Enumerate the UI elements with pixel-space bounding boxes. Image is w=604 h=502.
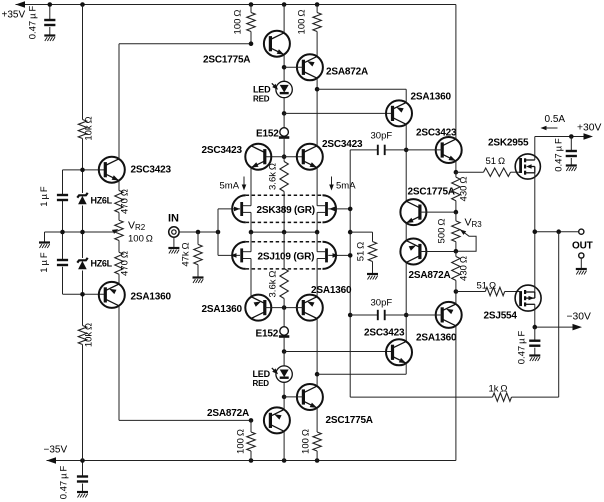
resistor 3.6k ohm top bbox=[283, 157, 285, 162]
wire lower base row bbox=[63, 293, 106, 295]
wire driver top emitter to gate node bbox=[455, 161, 457, 172]
svg-text:51 Ω: 51 Ω bbox=[477, 281, 497, 292]
node bottom node junction bbox=[249, 418, 254, 423]
wire VR2 to 470 bottom bbox=[118, 241, 120, 253]
wire 2SC1775A top emitter to LED bbox=[283, 55, 285, 82]
wire 2SC1775A bottom emitter to 100 ohm bbox=[316, 408, 318, 432]
wire 2SA872A top collector bbox=[316, 78, 318, 146]
node lower base row bbox=[80, 292, 85, 297]
svg-text:10k Ω: 10k Ω bbox=[84, 323, 95, 347]
transistor Q 2SA872A top bbox=[297, 54, 323, 80]
svg-text:HZ6L: HZ6L bbox=[91, 196, 113, 206]
node B junction bottom bbox=[282, 349, 287, 354]
LED RED top bbox=[276, 81, 292, 97]
arrow +30V rail right end bbox=[584, 133, 594, 139]
svg-text:HZ6L: HZ6L bbox=[91, 259, 113, 269]
wire top-right tap to VAS emitter bbox=[317, 88, 406, 90]
transistor Q 2SA1360 driver bottom bbox=[436, 302, 462, 328]
node VR3 top junction bbox=[454, 210, 459, 215]
gate arrow 2SK389 left bbox=[218, 208, 240, 210]
node bottom rail junctions bbox=[80, 458, 85, 463]
svg-text:100 Ω: 100 Ω bbox=[233, 10, 244, 35]
wire 2SJ554 source to output bbox=[534, 232, 536, 292]
svg-text:2SA1360: 2SA1360 bbox=[416, 333, 457, 344]
svg-text:2SC1775A: 2SC1775A bbox=[203, 55, 250, 66]
svg-text:51 Ω: 51 Ω bbox=[486, 156, 506, 167]
current diode E152 top bbox=[283, 113, 285, 127]
wire cascode left emitter to FET drain bbox=[250, 168, 252, 206]
svg-text:2SA1360: 2SA1360 bbox=[311, 285, 352, 296]
svg-text:10k Ω: 10k Ω bbox=[84, 116, 95, 140]
ground top-left cap bbox=[44, 36, 55, 42]
svg-text:2SC1775A: 2SC1775A bbox=[408, 187, 455, 198]
resistor 470 ohm top bbox=[115, 191, 123, 213]
wire VAS top collector bbox=[405, 124, 407, 201]
resistor 470 ohm bottom bbox=[115, 252, 123, 274]
capacitor 0.47uF top-left bbox=[49, 5, 51, 20]
wire capacitor column bbox=[62, 170, 64, 194]
svg-text:0.47 µ F: 0.47 µ F bbox=[28, 6, 39, 40]
wire 470 to lower-left emitter bbox=[118, 274, 120, 284]
transistor Q 2SC3423 upper-left bbox=[99, 157, 125, 183]
node input junctions bbox=[196, 230, 201, 235]
node -30V junction bbox=[533, 325, 538, 330]
connector OUT terminal bbox=[579, 229, 584, 234]
svg-text:LED: LED bbox=[253, 369, 271, 379]
svg-text:1k Ω: 1k Ω bbox=[489, 384, 508, 395]
svg-text:RED: RED bbox=[253, 95, 270, 104]
gate arrow 2SJ109 left bbox=[218, 254, 240, 256]
wire -30V rail bbox=[535, 326, 579, 328]
svg-text:+30V: +30V bbox=[577, 123, 601, 134]
svg-text:R2: R2 bbox=[135, 223, 146, 232]
node top rail junctions bbox=[48, 2, 53, 7]
transistor Q 2SA1360 cascode-bottom left bbox=[245, 295, 271, 321]
resistor 10k ohm bottom bbox=[78, 326, 86, 345]
svg-text:−35V: −35V bbox=[44, 445, 68, 456]
wire mid-right emitters joined bbox=[405, 223, 407, 241]
FET 2SK389 left half bbox=[232, 195, 246, 222]
zener diode HZ6L bottom bbox=[77, 258, 87, 263]
transistor Q 2SC1775A bottom bbox=[297, 384, 323, 410]
svg-text:2SC3423: 2SC3423 bbox=[202, 145, 243, 156]
wire LED to node A bbox=[283, 98, 285, 114]
wire VAS bottom collector bbox=[405, 341, 407, 343]
wire 2SC1775A bottom base bbox=[284, 396, 303, 398]
capacitor 0.47uF bottom-left bbox=[82, 461, 84, 476]
wire 2SJ554 drain to -30V rail bbox=[534, 304, 536, 327]
svg-text:IN: IN bbox=[168, 213, 179, 225]
node base tap 2SC1775A bottom bbox=[282, 395, 287, 400]
node VAS top collector junction bbox=[404, 148, 409, 153]
wire 2SA872A bottom collector to rail bbox=[283, 431, 285, 460]
zener diode HZ6L top bbox=[77, 193, 87, 198]
svg-text:+35V: +35V bbox=[2, 10, 26, 21]
FET 2SK389 right half bbox=[323, 195, 337, 222]
dual FET 2SK389 dashed package bbox=[246, 194, 323, 196]
capacitor 1uF top bbox=[57, 195, 68, 200]
svg-text:470 Ω: 470 Ω bbox=[120, 251, 131, 276]
MOSFET 2SK2955 bbox=[515, 154, 540, 179]
transistor Q 2SC3423 driver top bbox=[436, 137, 462, 163]
wire cascode base row top bbox=[265, 156, 304, 158]
svg-text:1 µ F: 1 µ F bbox=[39, 252, 50, 273]
svg-text:2SC3423: 2SC3423 bbox=[131, 165, 172, 176]
resistor 100 ohm bottom-right of center bbox=[313, 432, 321, 451]
svg-text:100 Ω: 100 Ω bbox=[297, 10, 308, 35]
transistor Q 2SA872A mid-right bbox=[400, 239, 426, 265]
svg-text:3.6k Ω: 3.6k Ω bbox=[268, 163, 279, 190]
node upper base row bbox=[80, 168, 85, 173]
wire +30V rail bbox=[535, 136, 590, 138]
resistor 1k ohm feedback bbox=[493, 393, 512, 401]
svg-text:100 Ω: 100 Ω bbox=[301, 429, 312, 454]
transistor Q 2SC3423 VAS bottom bbox=[386, 339, 412, 365]
wire -35V bottom rail bbox=[47, 460, 456, 462]
svg-text:0.47 µ F: 0.47 µ F bbox=[59, 466, 70, 500]
resistor 430 ohm bottom bbox=[455, 251, 457, 256]
svg-text:1 µ F: 1 µ F bbox=[39, 186, 50, 207]
resistor 10k ohm top bbox=[78, 120, 86, 139]
svg-text:0.5A: 0.5A bbox=[545, 114, 566, 125]
node source row junctions bbox=[249, 230, 254, 235]
transistor Q 2SC1775A top bbox=[264, 31, 290, 57]
wire 2SK2955 drain to +30V rail bbox=[534, 137, 536, 161]
wire lower-left collector to bottom node bbox=[118, 306, 120, 421]
resistor 51 ohm gate top bbox=[456, 171, 484, 173]
wire 2SA872A mid-right base bbox=[420, 251, 456, 253]
svg-text:30pF: 30pF bbox=[371, 131, 393, 142]
wire cascode base row bottom bbox=[265, 307, 304, 309]
wire upper base row bbox=[63, 169, 106, 171]
wire 2SK2955 source to output bbox=[534, 173, 536, 232]
gate arrow 2SJ109 right bbox=[328, 254, 350, 256]
node gate node bottom bbox=[454, 289, 459, 294]
node +30V cap junction bbox=[569, 134, 574, 139]
wire driver top base bbox=[406, 149, 442, 151]
wire feedback right vertical bbox=[558, 232, 560, 397]
wire driver bottom emitter to gate node bbox=[455, 292, 457, 305]
node gate column right junctions bbox=[348, 207, 353, 212]
svg-text:2SC3423: 2SC3423 bbox=[416, 128, 457, 139]
wire to 2SA872A bottom emitter bbox=[283, 397, 285, 410]
svg-text:3.6k Ω: 3.6k Ω bbox=[268, 271, 279, 298]
wire VAS top emitter bbox=[405, 89, 407, 102]
resistor 51 ohm gate bottom bbox=[456, 291, 485, 293]
wire input to 47k node bbox=[179, 231, 218, 233]
ground -30V cap bbox=[529, 356, 540, 362]
svg-text:5mA: 5mA bbox=[336, 181, 356, 192]
transistor Q 2SA1360 VAS top bbox=[386, 100, 412, 126]
dual FET 2SJ109 dashed package bbox=[246, 241, 323, 243]
wire node B to VAS-bottom base bbox=[284, 351, 392, 353]
svg-text:430 Ω: 430 Ω bbox=[459, 177, 470, 202]
wire 2SA872A top base bbox=[284, 66, 303, 68]
node VR3 bottom junction bbox=[454, 249, 459, 254]
svg-text:OUT: OUT bbox=[572, 241, 593, 252]
wire output row bbox=[535, 231, 578, 233]
wire upper-left emitter to 470 bbox=[118, 181, 120, 191]
svg-text:430 Ω: 430 Ω bbox=[459, 256, 470, 281]
potentiometer VR2 100 ohm bbox=[115, 220, 123, 240]
current diode E152 bottom bbox=[283, 308, 285, 327]
node cascode base top bbox=[282, 154, 287, 159]
svg-text:5mA: 5mA bbox=[220, 181, 240, 192]
wire node A to VAS base bbox=[284, 112, 392, 114]
svg-text:100 Ω: 100 Ω bbox=[236, 429, 247, 454]
svg-text:E152: E152 bbox=[256, 129, 279, 140]
svg-text:2SK389 (GR): 2SK389 (GR) bbox=[257, 205, 315, 216]
resistor 100 ohm bottom-left of center bbox=[250, 420, 252, 432]
svg-text:−30V: −30V bbox=[567, 312, 591, 323]
arrow -35V rail left end bbox=[47, 457, 57, 463]
LED RED bottom bbox=[283, 352, 285, 366]
wire center reference row bbox=[45, 231, 114, 233]
resistor 100 ohm top-left of center bbox=[250, 5, 252, 13]
svg-text:30pF: 30pF bbox=[371, 298, 393, 309]
svg-text:2SC1775A: 2SC1775A bbox=[326, 415, 373, 426]
wire cascode-bottom right emitter to FET drain bbox=[316, 259, 318, 297]
wire upper-left collector to top node bbox=[118, 44, 120, 159]
ground 47k bbox=[193, 278, 204, 284]
capacitor 30pF top bbox=[350, 149, 378, 151]
wire driver top collector to rail bbox=[455, 5, 457, 140]
svg-text:0.47 µ F: 0.47 µ F bbox=[517, 331, 528, 365]
capacitor 0.47uF +30V bbox=[570, 137, 572, 151]
svg-text:2SC3423: 2SC3423 bbox=[322, 139, 363, 150]
node A junction bbox=[282, 111, 287, 116]
svg-text:2SA872A: 2SA872A bbox=[207, 408, 249, 419]
wire 2SC1775A mid-right base bbox=[420, 211, 456, 213]
connector OUT ground terminal bbox=[579, 253, 584, 258]
svg-text:R3: R3 bbox=[472, 220, 483, 229]
gate arrow 2SK389 right bbox=[328, 208, 350, 210]
node top-left 100 ohm junction bbox=[249, 41, 254, 46]
resistor 51 ohm to ground at gate column bbox=[350, 231, 372, 233]
potentiometer VR3 500 ohm bbox=[452, 221, 460, 242]
node gate node top bbox=[454, 170, 459, 175]
wire driver bottom collector to rail bbox=[455, 326, 457, 461]
svg-text:47k Ω: 47k Ω bbox=[181, 242, 192, 266]
ground 51 ohm bbox=[367, 274, 378, 280]
svg-text:RED: RED bbox=[253, 379, 270, 388]
wire 2SC1775A top collector to rail bbox=[283, 5, 285, 33]
node base tap 2SA872A top bbox=[282, 65, 287, 70]
wire VR2 wiper arrow bbox=[113, 230, 117, 232]
resistor 3.6k ohm bottom bbox=[283, 232, 285, 268]
svg-text:51 Ω: 51 Ω bbox=[356, 242, 367, 262]
svg-text:2SJ554: 2SJ554 bbox=[484, 311, 518, 322]
node VAS bottom collector junction bbox=[404, 313, 409, 318]
connector input jack bbox=[169, 227, 179, 237]
wire 470 to VR2 bbox=[118, 213, 120, 221]
wire mid-right collector up bbox=[405, 200, 407, 202]
capacitor 0.47uF -30V bbox=[534, 327, 536, 340]
MOSFET 2SJ554 bbox=[515, 285, 541, 311]
node center reference junctions bbox=[60, 230, 65, 235]
capacitor 30pF bottom bbox=[350, 314, 378, 316]
svg-text:470 Ω: 470 Ω bbox=[120, 189, 131, 214]
wire VAS bottom emitter bbox=[405, 363, 407, 374]
transistor Q 2SC3423 cascode right bbox=[297, 144, 323, 170]
wire K389 sources to source row bbox=[250, 212, 252, 232]
svg-text:2SC3423: 2SC3423 bbox=[364, 328, 405, 339]
resistor 430 ohm top bbox=[455, 172, 457, 177]
wire mid-right collector down to VAS bottom bbox=[405, 262, 407, 341]
svg-text:V: V bbox=[128, 220, 135, 232]
wire gate column left bbox=[217, 209, 219, 256]
svg-text:2SA1360: 2SA1360 bbox=[411, 92, 452, 103]
arrow +35V rail left end bbox=[16, 1, 26, 8]
svg-text:V: V bbox=[465, 217, 472, 229]
svg-text:2SA1360: 2SA1360 bbox=[131, 292, 172, 303]
wire VR3 wiper bbox=[456, 230, 476, 252]
ground center reference bbox=[44, 232, 46, 242]
wire LED bottom to base tap bbox=[283, 382, 285, 397]
wire driver bottom base bbox=[406, 314, 442, 316]
svg-text:2SK2955: 2SK2955 bbox=[488, 138, 529, 149]
wire feedback bottom bbox=[512, 396, 559, 398]
svg-text:2SA872A: 2SA872A bbox=[326, 67, 368, 78]
svg-text:E152: E152 bbox=[256, 329, 279, 340]
svg-text:2SJ109 (GR): 2SJ109 (GR) bbox=[258, 251, 315, 262]
FET 2SJ109 left half bbox=[232, 242, 246, 269]
resistor 100 ohm top-right of center bbox=[316, 5, 318, 13]
wire 2SC1775A bottom collector bbox=[316, 318, 318, 386]
node output junctions bbox=[533, 229, 538, 234]
transistor Q 2SA1360 cascode-bottom right bbox=[297, 295, 323, 321]
node cascode base bottom bbox=[282, 305, 287, 310]
node collector tap top-right bbox=[315, 87, 320, 92]
svg-text:2SA872A: 2SA872A bbox=[409, 270, 451, 281]
wire +35V top rail bbox=[16, 4, 456, 6]
svg-text:LED: LED bbox=[253, 85, 271, 95]
wire left bias column bbox=[82, 5, 84, 120]
FET 2SJ109 right half bbox=[323, 242, 337, 269]
svg-text:0.47 µ F: 0.47 µ F bbox=[554, 138, 565, 172]
wire gate column right segment bbox=[349, 150, 351, 397]
capacitor 1uF bottom bbox=[57, 260, 68, 265]
transistor Q 2SA872A bottom-left bbox=[264, 407, 290, 433]
wire J109 sources to source row bbox=[250, 232, 252, 252]
resistor 47k ohm input bbox=[197, 232, 199, 244]
wire cascode right emitter to FET drain bbox=[316, 168, 318, 206]
transistor Q 2SC1775A mid-right bbox=[400, 199, 426, 225]
transistor Q 2SA1360 lower-left bbox=[99, 282, 125, 308]
ground OUT terminal bbox=[580, 258, 582, 268]
arrow -30V rail right end bbox=[573, 324, 583, 331]
svg-text:500 Ω: 500 Ω bbox=[437, 219, 448, 244]
ground bottom-left cap bbox=[77, 492, 88, 498]
node collector tap bottom-right bbox=[315, 372, 320, 377]
ground +30V cap bbox=[566, 166, 577, 172]
wire source row bbox=[251, 231, 317, 233]
wire cascode-bottom left emitter to FET drain bbox=[250, 259, 252, 297]
transistor Q 2SC3423 cascode left bbox=[245, 144, 271, 170]
ground input jack bbox=[173, 237, 175, 247]
svg-text:100 Ω: 100 Ω bbox=[128, 234, 153, 245]
svg-text:2SA1360: 2SA1360 bbox=[202, 304, 243, 315]
